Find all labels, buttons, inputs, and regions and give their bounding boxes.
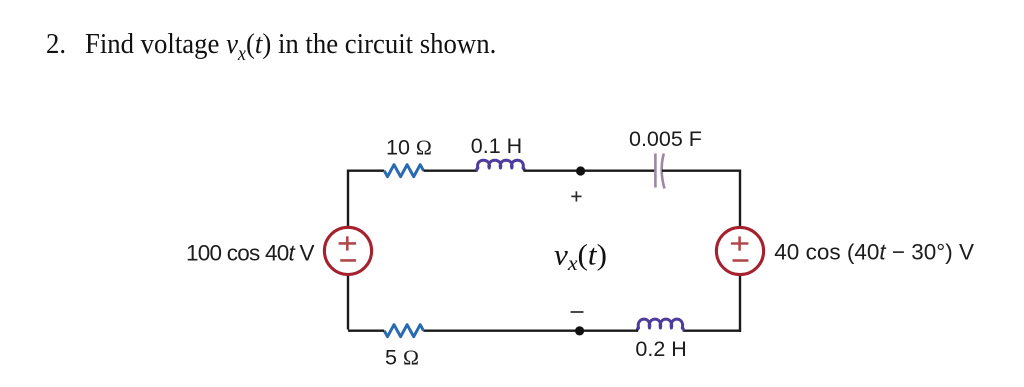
polarity plus of vx	[571, 191, 581, 201]
resistor R 5 ohm	[384, 325, 423, 337]
wire between L and C top	[523, 169, 655, 171]
wire between node and L bottom	[423, 330, 638, 332]
capacitor C 0.005 F left plate	[654, 154, 657, 188]
source VS1 plus sign	[339, 236, 357, 250]
wire left side	[347, 170, 349, 330]
wire bottom-left segment	[348, 330, 384, 332]
wire between R and L top	[424, 169, 478, 171]
wire right side	[739, 170, 741, 333]
svg-text:5 Ω: 5 Ω	[385, 345, 419, 369]
wire C to top-right corner	[662, 169, 740, 171]
resistor R 10 ohm	[384, 165, 423, 177]
inductor L 0.2 H	[637, 319, 683, 331]
polarity minus of vx	[571, 311, 584, 313]
wire top-left segment	[348, 169, 384, 171]
source VS2 minus sign	[733, 259, 749, 262]
svg-text:0.2 H: 0.2 H	[635, 337, 686, 361]
source VS1 minus sign	[340, 259, 356, 262]
svg-text:0.005 F: 0.005 F	[629, 127, 702, 151]
source VS2 circle (right)	[716, 227, 763, 274]
node dot bottom	[575, 326, 584, 335]
svg-text:vx(t): vx(t)	[554, 239, 607, 276]
svg-text:100 cos 40t V: 100 cos 40t V	[186, 240, 315, 265]
svg-text:40 cos (40t − 30°) V: 40 cos (40t − 30°) V	[774, 239, 974, 264]
wire bottom right segment	[683, 330, 740, 332]
svg-text:0.1 H: 0.1 H	[471, 134, 522, 158]
svg-text:10 Ω: 10 Ω	[386, 135, 432, 159]
inductor L 0.1 H	[477, 160, 524, 171]
capacitor C 0.005 F curved plate	[662, 154, 665, 189]
node dot top	[576, 166, 585, 175]
source VS1 circle (left)	[324, 227, 371, 274]
problem title text	[46, 30, 496, 65]
source VS2 plus sign	[731, 236, 749, 250]
